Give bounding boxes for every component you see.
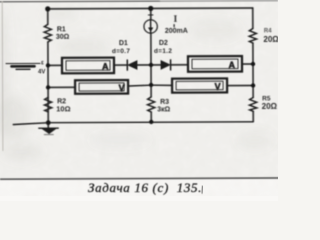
wire top bus	[48, 7, 253, 10]
svg-text:d=0.7: d=0.7	[112, 48, 130, 55]
svg-text:R4: R4	[264, 28, 272, 34]
svg-text:V: V	[119, 83, 125, 93]
wire bottom bus	[13, 122, 253, 125]
current source I1	[144, 20, 157, 33]
node junction bottom-left	[46, 120, 51, 125]
resistor R2	[44, 97, 51, 112]
node junction top-left	[45, 6, 50, 11]
svg-text:R1: R1	[57, 26, 66, 33]
diode D1	[127, 60, 137, 70]
battery EMF symbol	[6, 63, 40, 69]
wire right vertical mid	[252, 43, 254, 97]
ammeter PA2 box	[188, 56, 242, 72]
node junction left A-row	[46, 63, 50, 67]
paper background	[0, 0, 278, 178]
resistor R4	[249, 28, 256, 43]
wire stub to voltmeter PV1	[48, 86, 75, 88]
svg-text:30Ω: 30Ω	[56, 34, 70, 41]
svg-text:20Ω: 20Ω	[262, 102, 278, 111]
node junction bottom-center	[149, 120, 153, 124]
node junction left V-row	[46, 85, 50, 89]
svg-text:A: A	[228, 60, 235, 70]
svg-text:3кΩ: 3кΩ	[157, 106, 170, 113]
voltmeter PV1 box	[75, 80, 128, 94]
svg-text:d=1.2: d=1.2	[154, 48, 172, 55]
wire voltmeter PV2 to right vertical	[227, 85, 253, 87]
wire center vertical mid	[150, 33, 152, 85]
diode D2	[161, 60, 171, 70]
wire right vertical upper	[252, 8, 254, 28]
node junction center diode row	[149, 63, 153, 67]
ground	[39, 123, 59, 135]
resistor R5	[249, 97, 256, 111]
wire right vertical lower	[252, 111, 254, 121]
svg-text:4V: 4V	[38, 69, 45, 75]
ammeter PA1 box	[62, 58, 114, 74]
svg-text:ε: ε	[41, 60, 44, 66]
resistor R3	[147, 97, 154, 112]
wire ammeter PA2 to right vertical	[242, 63, 253, 65]
wire left vertical upper	[47, 9, 49, 24]
figure bottom rule	[0, 178, 278, 179]
svg-text:D2: D2	[159, 40, 168, 47]
wire voltmeter PV1 to center node	[128, 84, 151, 87]
wire center to bottom bus	[150, 112, 152, 122]
svg-text:D1: D1	[119, 40, 128, 47]
wire D1 to center node	[137, 64, 161, 66]
wire D2 to ammeter PA2	[171, 64, 188, 66]
svg-text:A: A	[102, 62, 109, 72]
wire stub to ammeter PA1	[48, 64, 62, 66]
wire center vertical upper	[150, 8, 152, 19]
node junction right V-row	[251, 83, 255, 87]
node junction right A-row	[251, 62, 255, 66]
svg-text:V: V	[215, 82, 221, 92]
svg-text:20Ω: 20Ω	[263, 35, 278, 44]
svg-text:Задача 16 (с) 135.: Задача 16 (с) 135.	[88, 180, 202, 195]
svg-text:10Ω: 10Ω	[56, 104, 70, 113]
wire center node to voltmeter PV2	[151, 84, 172, 86]
label I prime tick	[173, 24, 174, 27]
resistor R1	[44, 24, 51, 42]
svg-text:R3: R3	[160, 99, 169, 106]
figure frame top border	[0, 0, 160, 3]
svg-text:I: I	[174, 15, 178, 25]
voltmeter PV2 box	[172, 78, 227, 92]
node junction top-center	[148, 6, 153, 11]
figure frame left border	[1, 2, 4, 151]
wire center vertical lower	[150, 85, 152, 97]
node junction center V-row	[149, 83, 153, 87]
wire left vertical mid	[47, 42, 49, 122]
svg-text:200mA: 200mA	[165, 28, 188, 35]
caption trailing mark	[201, 186, 204, 194]
wire ammeter row left (PA1 to D1)	[114, 64, 126, 66]
